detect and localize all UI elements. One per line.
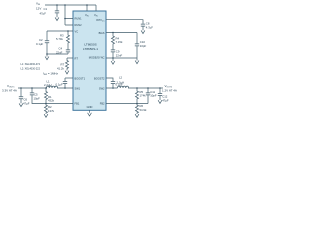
svg-text:41.2k: 41.2k [57, 66, 64, 70]
svg-text:22nF: 22nF [116, 53, 123, 57]
wire VC pin [47, 30, 73, 32]
svg-text:FB1: FB1 [75, 102, 80, 106]
node VOUT2 label [162, 84, 177, 93]
capacitor CFF2 10pF [146, 88, 157, 104]
wire INTVCC [106, 20, 143, 24]
node junction BIAS [112, 32, 114, 34]
svg-text:10pF: 10pF [140, 44, 147, 48]
node junction FB2 top [136, 87, 138, 89]
node junction VC gnd [46, 53, 48, 55]
ground MODE right [135, 58, 139, 64]
svg-text:GND: GND [87, 105, 93, 109]
svg-text:BIAS: BIAS [99, 31, 105, 35]
svg-text:5.74k: 5.74k [56, 37, 63, 41]
ground R6 [135, 114, 139, 117]
ground C1 [55, 17, 59, 20]
wire VC bottom bus [47, 53, 68, 55]
svg-text:2.2µH: 2.2µH [44, 83, 52, 87]
svg-text:LT8650S-1: LT8650S-1 [83, 47, 98, 51]
resistor RT 41.2k [57, 58, 73, 71]
svg-text:3.3V AT 4A: 3.3V AT 4A [2, 88, 17, 92]
svg-text:RUN2: RUN2 [75, 23, 83, 27]
resistor R2 137k [45, 104, 55, 115]
node junction VIN-RUN [64, 4, 66, 6]
node junction VIN pin [86, 4, 88, 6]
capacitor C4 22nF [56, 47, 70, 55]
svg-text:FB2: FB2 [100, 102, 105, 106]
ground VC [45, 54, 49, 60]
capacitor C2 0.1uF [36, 31, 49, 54]
svg-text:12V: 12V [36, 6, 41, 10]
capacitor COUT2 47uF [158, 88, 169, 102]
inductor L1 [44, 79, 58, 88]
ground R2 [44, 114, 48, 117]
wire SW1 / VOUT1 bus [18, 87, 73, 89]
capacitor C1 [40, 5, 60, 17]
capacitor C8 1uF [141, 21, 153, 30]
wire MODE/SYNC [106, 57, 137, 59]
svg-text:MODE/SYNC: MODE/SYNC [89, 55, 105, 59]
op-amp U1 [73, 11, 106, 110]
svg-text:L2: XEL4030-222: L2: XEL4030-222 [21, 67, 41, 70]
capacitor C9 22nF [111, 50, 123, 58]
node VIN label [36, 1, 41, 10]
svg-text:47µF: 47µF [162, 98, 169, 102]
svg-text:4.7µF: 4.7µF [146, 25, 153, 29]
wire FB2 [106, 103, 148, 105]
svg-text:RT: RT [75, 56, 79, 60]
capacitor CB1 0.1uF boost1 [56, 78, 74, 88]
node L1 footnote [21, 63, 41, 70]
ground MODE left [111, 58, 115, 64]
node junction MODE gnd [112, 57, 114, 59]
svg-text:SW2: SW2 [99, 86, 105, 90]
wire FB1 [46, 103, 73, 105]
node junction VIN-C1 [56, 4, 58, 6]
node junction FB1 top [45, 87, 47, 89]
node junction CFF2 [147, 87, 149, 89]
svg-text:BOOST2: BOOST2 [94, 76, 105, 80]
ground RT [65, 71, 69, 74]
svg-text:10pF: 10pF [34, 96, 41, 100]
capacitor C10 10pF [135, 33, 147, 59]
svg-text:LT8650S: LT8650S [84, 43, 96, 47]
resistor R6 54.9k [136, 104, 147, 115]
node junction COUT1 [20, 87, 22, 89]
svg-text:47µF: 47µF [40, 11, 47, 15]
node junction SW1-boost [64, 87, 66, 89]
svg-text:0.1µF: 0.1µF [36, 42, 43, 46]
node junction RUN1 [64, 18, 66, 20]
resistor R3 5.74k [56, 31, 70, 50]
svg-text:L1: XEL4030-472: L1: XEL4030-472 [21, 63, 41, 66]
wire VIN top bus [45, 5, 96, 11]
wire RUN branch [65, 5, 73, 25]
svg-text:10pF: 10pF [150, 94, 157, 98]
resistor R1 432k [45, 88, 55, 104]
svg-text:174k: 174k [140, 94, 147, 98]
node junction FB2 [136, 103, 138, 105]
svg-text:BOOST1: BOOST1 [75, 76, 86, 80]
wire BIAS [106, 32, 137, 34]
svg-text:SW1: SW1 [75, 86, 81, 90]
svg-text:137k: 137k [48, 109, 55, 113]
svg-text:54.9k: 54.9k [140, 108, 147, 112]
node junction COUT2 [159, 87, 161, 89]
svg-text:2.2µH: 2.2µH [117, 80, 125, 84]
ground COUT2 [158, 100, 162, 103]
node junction VC [67, 30, 69, 32]
svg-text:7.15k: 7.15k [116, 40, 123, 44]
svg-text:1.2V AT 4A: 1.2V AT 4A [162, 89, 177, 93]
node junction SW2-boost [112, 87, 114, 89]
resistor R4 7.15k [112, 33, 123, 50]
node junction FB1 [45, 103, 47, 105]
capacitor COUT1 47uF [19, 88, 30, 106]
svg-text:RUN1: RUN1 [75, 17, 83, 21]
node junction CFF1 [31, 87, 33, 89]
node VOUT1 label [2, 84, 17, 92]
svg-text:L2: L2 [119, 75, 123, 79]
svg-text:47µF: 47µF [23, 102, 30, 106]
ground C8 [141, 30, 145, 33]
capacitor CB2 0.1uF boost2 [106, 78, 123, 88]
capacitor CFF1 10pF [30, 88, 46, 104]
svg-text:0.1µF: 0.1µF [56, 82, 63, 86]
svg-text:VC: VC [75, 30, 79, 34]
ground COUT1 [19, 103, 23, 106]
svg-text:432k: 432k [48, 99, 55, 103]
wire SW2 / VOUT2 bus [106, 87, 163, 89]
ground GND pin [88, 110, 92, 116]
inductor L2 [117, 75, 129, 88]
resistor R5 174k [136, 88, 147, 104]
